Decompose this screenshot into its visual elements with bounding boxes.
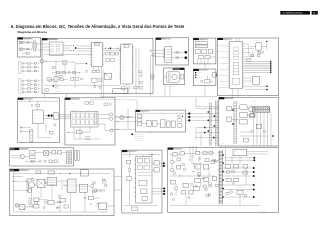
connector J2 (front AV) <box>19 48 25 50</box>
svg-text:xxx: xxx <box>256 168 258 170</box>
svg-text:MSP STEREO: MSP STEREO <box>71 99 79 101</box>
cells inside U401 (bottom row) <box>72 120 93 125</box>
startup resistor block (box with X) <box>37 179 45 187</box>
small components below U301 <box>122 84 143 94</box>
CRT panel connector grid <box>250 106 270 117</box>
svg-text:OTC µP: OTC µP <box>224 39 229 41</box>
svg-text:xxxxx: xxxxx <box>197 75 200 77</box>
svg-text:xxxx xxx: xxxx xxx <box>21 170 26 172</box>
dashed control wire across middle band <box>90 100 137 111</box>
svg-text:x xxx xx: x xxx xx <box>196 46 200 48</box>
AGC parts top of tuner <box>136 111 184 127</box>
svg-text:xxx: xxx <box>210 167 212 169</box>
mains plug P1 <box>12 155 24 159</box>
wires: vertical yoke connector <box>152 162 165 195</box>
svg-text:xxx xxxx xx: xxx xxxx xx <box>72 109 78 111</box>
section tab: sync processing <box>219 97 234 99</box>
misc small components right of U301 <box>137 50 155 84</box>
section tab: power LED <box>193 69 208 71</box>
section tab: horizontal deflection <box>168 148 183 150</box>
svg-text:xx: xx <box>223 71 225 73</box>
svg-text:xxx: xxx <box>246 191 248 193</box>
svg-text:xx: xx <box>223 49 225 51</box>
tuner input cells <box>136 114 144 126</box>
svg-text:xxxxxxx xx: xxxxxxx xx <box>197 72 203 74</box>
svg-text:xxxxx: xxxxx <box>234 151 237 153</box>
section tab: degaussing (wide) <box>173 67 185 70</box>
svg-text:xxx: xxx <box>82 171 84 173</box>
svg-text:xx: xx <box>223 77 225 79</box>
svg-text:xx: xx <box>272 61 274 63</box>
svg-text:HOR / EHT: HOR / EHT <box>174 149 181 151</box>
smoothing caps C2/C3 <box>49 151 67 154</box>
I2C bus ladder A (vertical) <box>207 103 211 147</box>
wires: audio L/R to stereo decoder <box>59 115 70 119</box>
feedback network R401 <box>67 127 91 134</box>
svg-text:xxx xx: xxx xx <box>169 88 172 90</box>
mute transistors Q601/Q602 <box>38 113 58 138</box>
label text: tuner <box>141 111 145 113</box>
svg-text:xxxxxx xx: xxxxxx xx <box>197 77 202 79</box>
page subtitle <box>18 30 48 34</box>
page title <box>11 24 185 29</box>
text rows below tuner (test points) <box>131 132 150 142</box>
rectifier diode D801 (circle with cross) <box>15 204 19 208</box>
svg-text:xx: xx <box>114 77 116 79</box>
svg-text:xx: xx <box>240 115 242 117</box>
svg-text:xx: xx <box>269 154 271 156</box>
rectifier block (box with X) <box>20 205 25 210</box>
svg-text:xx: xx <box>223 43 225 45</box>
pin label column left of U301 <box>114 48 116 80</box>
demodulator blocks <box>157 120 175 128</box>
misc small components lower video section <box>52 66 87 77</box>
header box U301 <box>124 45 129 48</box>
page-number plate (top right) <box>312 11 318 15</box>
section tab: tuner <box>136 110 150 112</box>
svg-text:x xxx xxx xxxxx x: x xxx xxx xxxxx x <box>74 213 83 215</box>
svg-text:EXT 2: EXT 2 <box>162 39 166 41</box>
IC U501 (vertical output) <box>136 157 152 204</box>
RCA jack CINCH2 <box>172 56 188 59</box>
snubber block <box>79 184 87 192</box>
headphone jack J601 <box>30 130 33 142</box>
label text: stereo decoder <box>71 99 97 101</box>
svg-text:xx xxx: xx xxx <box>72 103 75 105</box>
svg-text:xx: xx <box>223 62 225 64</box>
svg-text:CONTROL: CONTROL <box>200 39 206 41</box>
pin ticks U201 <box>90 44 104 64</box>
caption under EXT2 connector <box>164 63 167 65</box>
IF wire to filter block <box>76 63 87 64</box>
caption text in audio section <box>20 139 23 143</box>
section box: horizontal deflection / EHT (bottom-right) <box>168 148 279 213</box>
output transistors Q401-Q403 <box>98 113 113 132</box>
svg-text:xx: xx <box>223 83 225 85</box>
section box: degaussing coil <box>164 68 185 85</box>
row of parts y72 (video section) <box>52 71 81 74</box>
signal arrows to U201 (dark cluster) <box>44 45 92 54</box>
file-name plate (top right) <box>280 11 310 15</box>
svg-text:xxx: xxx <box>234 154 236 156</box>
svg-text:xx: xx <box>59 162 61 164</box>
wires: U101 right pins to crystal area <box>244 49 254 60</box>
keyboard block K1 <box>195 42 208 45</box>
svg-text:xxx: xxx <box>96 203 98 205</box>
svg-text:xx: xx <box>256 185 258 187</box>
section tab: audio amplifier <box>18 98 33 100</box>
left rail wires SMPS <box>12 172 28 212</box>
cells inside U501 <box>137 159 151 201</box>
small components below U201 <box>44 67 121 89</box>
svg-text:xxx: xxx <box>43 196 45 198</box>
IC U101 (microcontroller) <box>230 42 243 89</box>
LED D1 with resistor <box>201 72 217 83</box>
label text: horizontal deflection <box>174 149 181 151</box>
section box: stereo decoder (mid-2nd) <box>65 98 115 145</box>
svg-text:xx xxxx: xx xxxx <box>262 213 266 215</box>
svg-text:xx: xx <box>223 65 225 67</box>
svg-text:xx: xx <box>114 64 116 66</box>
section box: CVBS output (top, 3rd) <box>156 38 189 65</box>
connector J1 (front AV) <box>19 41 25 43</box>
wires: deflection drive lines to sync section <box>196 127 219 146</box>
EEPROM U102 <box>244 76 259 84</box>
switch S1 (AV selector ellipse) <box>33 40 37 51</box>
svg-text:xxx xx: xxx xx <box>164 63 167 65</box>
pin ticks U501 left <box>134 160 136 197</box>
section tab: control panel <box>193 38 208 40</box>
svg-text:xx: xx <box>223 56 225 58</box>
svg-text:xx: xx <box>22 126 24 128</box>
svg-text:xx xxxx: xx xxxx <box>253 100 257 102</box>
svg-text:xxx: xxx <box>253 81 255 83</box>
sync separator blocks <box>227 105 255 124</box>
RCA jack CINCH1 <box>172 51 188 54</box>
svg-text:x xxx xxx xxxxx: x xxx xxx xxxxx <box>258 211 266 213</box>
svg-text:xx: xx <box>100 205 102 207</box>
svg-text:xxx: xxx <box>194 197 196 199</box>
loudspeaker return wires <box>20 126 30 133</box>
wires: control panel outputs <box>198 51 216 64</box>
output stage center blocks <box>193 156 217 190</box>
text rows: power LED section <box>195 72 203 79</box>
misc small components in EHT center <box>172 159 215 200</box>
section tab: CVBS output <box>156 38 171 40</box>
section tab: video processing <box>42 38 57 40</box>
horizontal driver transistors <box>169 157 215 177</box>
misc small components in SMPS <box>28 184 107 203</box>
control block U801 <box>47 177 57 185</box>
svg-text:xx: xx <box>223 52 225 54</box>
svg-text:xxx: xxx <box>198 105 200 107</box>
IC U201 (video processor) <box>92 42 103 66</box>
output caps right of U501 <box>152 161 159 172</box>
resistor network R-in <box>22 42 32 55</box>
junction dots in SMPS <box>26 181 85 203</box>
label text: video processing <box>48 38 67 43</box>
varistor RV1 <box>120 115 124 119</box>
crystal X201 <box>104 71 111 79</box>
CRT socket ladder (dark vertical bar) <box>218 150 224 204</box>
svg-text:xxxxx: xxxxx <box>20 139 23 141</box>
left column AV input jacks (group 1) <box>19 62 40 74</box>
reset lines lower right <box>232 85 268 95</box>
wires: stereo decoder to tuner IF <box>110 108 136 130</box>
svg-text:6. Diagrama em Blocos, I2C,: 6. Diagrama em Blocos, I2C, Tensões de A… <box>11 24 185 29</box>
section tab: vertical deflection <box>122 150 137 152</box>
bus ladder inside sync section <box>232 101 236 144</box>
svg-text:xx: xx <box>223 59 225 61</box>
svg-text:xx: xx <box>223 74 225 76</box>
supply rail wire (top of audio section) <box>19 100 58 105</box>
sound trap L1 <box>39 60 47 64</box>
svg-text:xx: xx <box>114 48 116 50</box>
pin ticks U101 right <box>237 39 245 88</box>
wire row y80 (video section) <box>49 75 58 81</box>
line chopper transformer T1 (circles) <box>27 181 37 193</box>
wires: EXT2 to video section <box>156 50 165 56</box>
secondary filter caps row <box>25 198 68 209</box>
section tab: power supply <box>10 169 29 172</box>
choke L2 (hatched bar) <box>67 151 69 164</box>
IC U301 (teletext/OSD processor) <box>121 44 133 84</box>
wires: tuner outputs with connector blobs <box>186 113 219 122</box>
svg-text:xxx: xxx <box>90 179 92 181</box>
small parts bottom of mains section <box>26 160 61 164</box>
svg-text:xx: xx <box>114 74 116 76</box>
degaussing coil L5 <box>164 71 184 83</box>
IC U401 (sound processor, wide) <box>71 112 98 128</box>
text above U401 <box>72 102 111 112</box>
wires: bus risers between bands <box>190 97 219 158</box>
svg-text:x xxx xxxx: x xxx xxxx <box>55 85 61 87</box>
keyboard block K2 <box>195 45 208 48</box>
svg-text:xxxx: xxxx <box>87 109 90 111</box>
svg-text:xx: xx <box>223 87 225 89</box>
section tab: microcontroller <box>218 38 233 40</box>
bus wire between top row and middle band <box>102 48 218 97</box>
svg-text:xxx: xxx <box>253 102 255 104</box>
section box: tuner / IF (mid-3rd) <box>136 110 186 132</box>
section box: control panel (top, 4th) <box>193 38 216 64</box>
cells inside U101 <box>232 47 240 84</box>
svg-text:xxx: xxx <box>222 143 224 145</box>
section box: mains input filter (bottom-left top) <box>10 148 74 166</box>
svg-text:xx: xx <box>240 107 242 109</box>
text rows inside U301 <box>122 48 125 82</box>
IC U802 (SMPS driver, tall) <box>68 179 77 193</box>
section box: power LED (below control) <box>193 69 216 86</box>
svg-text:xxxx: xxxx <box>256 141 259 143</box>
flyback transformer T501 label box <box>233 150 271 156</box>
misc small components in SMPS bottom row <box>27 179 106 208</box>
svg-text:x xxx xxxxx: x xxx xxxxx <box>55 91 61 93</box>
wire: S1 to section edge <box>36 42 40 50</box>
svg-text:xx: xx <box>114 71 116 73</box>
filter C201 <box>31 104 40 110</box>
section box: power supply (bottom-left big) <box>10 169 114 216</box>
svg-text:x xxx xxx: x xxx xxx <box>55 88 60 90</box>
svg-text:xxxx xxx: xxxx xxx <box>167 42 172 44</box>
text rows inside U601 <box>33 112 36 123</box>
svg-text:xxx: xxx <box>249 189 251 191</box>
IR receiver blocks <box>195 50 213 59</box>
misc small components in EHT left mesh <box>191 160 219 187</box>
I2C bus ladder B (vertical) <box>213 101 217 147</box>
caption text: SMPS part number <box>74 213 83 215</box>
label text: vertical deflection <box>128 150 134 153</box>
label text: CVBS output <box>158 39 171 46</box>
svg-text:xx: xx <box>269 151 271 153</box>
section box: microcontroller (top-right) <box>218 38 279 96</box>
pin labels U101 left <box>219 43 228 88</box>
wires: connector to bottom of section <box>254 112 272 146</box>
section box: side AV input (top-left) <box>18 38 41 58</box>
standby sensor parts (right of mains box) <box>75 151 80 165</box>
svg-text:x: x <box>75 152 76 154</box>
header box U201 <box>95 43 100 46</box>
svg-text:xx: xx <box>272 69 274 71</box>
section box: video/chroma processing (top-middle) <box>42 38 153 93</box>
svg-text:x xxx xxxx xxx xxx: x xxx xxxx xxx xxx <box>134 134 144 136</box>
svg-text:xxx: xxx <box>38 192 40 194</box>
cells inside U401 (top row) <box>72 113 93 118</box>
bottom rail wire SMPS <box>14 185 109 212</box>
wires: SMPS outputs to vertical section <box>114 177 122 190</box>
heater supply rows <box>225 157 259 162</box>
section box: sync processing (mid-right) <box>219 97 279 146</box>
supply wire top of vertical section <box>123 153 160 157</box>
label text: power supply <box>21 170 26 172</box>
crystal X101 with caps <box>244 41 267 57</box>
choke L3 (hatched bar) <box>70 151 72 164</box>
pin ticks U301 <box>119 47 134 82</box>
label text: sync processing <box>225 98 257 104</box>
ground return wire bottom of EHT section <box>170 148 260 206</box>
filter block with circle (mid video section) <box>48 60 75 64</box>
label text: audio amplifier <box>24 98 31 101</box>
svg-text:xxxx xxx xxxxx: xxxx xxx xxxxx <box>167 86 175 88</box>
label text: control panel <box>200 39 206 41</box>
video out wires with test points <box>223 167 258 199</box>
svg-text:x xxx xxx xxxx xxx: x xxx xxx xxxx xxx <box>134 138 144 140</box>
svg-text:xx: xx <box>272 72 274 74</box>
misc small components in SMPS center <box>27 178 68 194</box>
opto coupler Q801/Q802 <box>87 184 97 192</box>
svg-text:xx: xx <box>195 162 197 164</box>
comb filter box below section <box>113 89 128 94</box>
text rows inside U201 <box>92 45 95 64</box>
caption text: degauss part number <box>167 86 175 90</box>
section tab: stereo decoder <box>65 98 80 100</box>
svg-text:xxx: xxx <box>27 197 29 199</box>
svg-text:SYNC: SYNC <box>225 98 229 100</box>
svg-text:xx: xx <box>56 171 58 173</box>
svg-text:xxxx xx: xxxx xx <box>84 141 88 143</box>
svg-text:xxx: xxx <box>137 75 139 77</box>
pin ticks U802 <box>66 180 75 191</box>
RGB amplifier parts <box>222 124 274 144</box>
fuse F1 and filter C1 <box>24 151 43 159</box>
driver transformer and snubbers <box>170 180 193 196</box>
svg-text:xxxx: xxxx <box>247 92 250 94</box>
svg-text:SMPS: SMPS <box>10 170 14 172</box>
svg-text:xx: xx <box>75 162 77 164</box>
bridge rectifier D1 (box with X) <box>44 151 49 155</box>
pin column right inside U401 <box>94 113 97 125</box>
coupling components between U201 and U301 <box>104 47 121 61</box>
svg-text:x xxx xxxx xxxxx xx: x xxx xxxx xxxxx xx <box>134 136 144 138</box>
svg-text:xx: xx <box>272 65 274 67</box>
svg-text:x xxx xxxx xx: x xxx xxxx xx <box>134 140 141 142</box>
left column AV input jacks (group 2) <box>19 79 40 94</box>
svg-text:xxxxxxx: xxxxxxx <box>114 91 119 93</box>
label text: mains input <box>21 149 24 151</box>
wires: inter-section connections <box>41 44 238 98</box>
audio switch group <box>47 77 83 82</box>
IC U601 (audio amplifier) <box>33 110 44 124</box>
svg-text:xxx: xxx <box>256 197 258 199</box>
top rail parts of SMPS <box>14 170 111 176</box>
driver stage top-left of EHT section <box>169 151 215 156</box>
misc small components in EHT section <box>173 158 251 200</box>
IF filter blocks <box>142 121 157 127</box>
svg-text:xx: xx <box>223 46 225 48</box>
svg-text:xxx: xxx <box>256 176 258 178</box>
caption text: drawing number (bottom right) <box>258 211 266 215</box>
section box: vertical deflection (bottom-middle) <box>122 150 162 213</box>
wires: S1 inputs into selector <box>42 44 50 50</box>
svg-text:xxx: xxx <box>253 78 255 80</box>
CRT bias parts right of socket <box>223 164 253 194</box>
svg-text:Diagrama em Blocos: Diagrama em Blocos <box>18 30 48 34</box>
svg-text:xxxx: xxxx <box>64 41 67 43</box>
svg-text:xx: xx <box>114 67 116 69</box>
svg-text:CL 36532124_059.eps: CL 36532124_059.eps <box>283 13 303 15</box>
svg-text:xx: xx <box>158 44 160 46</box>
text rows bottom-left of video section <box>44 85 61 92</box>
driver parts left of U501 <box>124 152 159 210</box>
input selector sub-block (left of U201) <box>50 40 64 55</box>
svg-text:x xxx xxx: x xxx xxx <box>196 43 201 45</box>
misc small components near crystal X101 <box>247 51 264 61</box>
svg-text:xxxx: xxxx <box>257 158 260 160</box>
vertical tie wires in video section <box>56 60 75 88</box>
section tab: side AV input <box>18 38 33 40</box>
svg-text:TUNER: TUNER <box>141 111 145 113</box>
svg-text:xxx: xxx <box>257 160 259 162</box>
connector EXT2 (pin header) <box>163 47 171 63</box>
section tab: mains input <box>10 148 29 151</box>
secondary rectifier block <box>88 196 114 209</box>
wires: U401 bottom to section edge <box>74 127 100 143</box>
svg-text:xxx xxxx: xxx xxxx <box>254 39 259 41</box>
svg-text:x: x <box>37 42 38 44</box>
I2C bus lines to right edge <box>244 61 273 74</box>
pin ticks U101 left <box>228 43 230 87</box>
section box: audio amplifier (mid-left) <box>18 98 60 143</box>
label text: microcontroller <box>224 39 259 44</box>
label text: side AV input <box>24 37 31 40</box>
svg-text:xxxx: xxxx <box>21 149 24 151</box>
svg-text:xx: xx <box>256 172 258 174</box>
